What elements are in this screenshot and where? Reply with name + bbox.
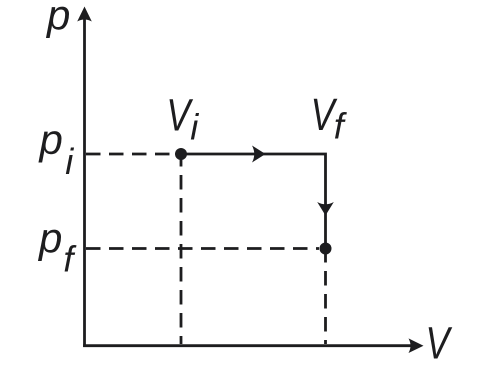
svg-text:f: f xyxy=(334,106,348,147)
mid-arrow on vertical segment (downward) xyxy=(317,202,334,216)
y-axis (p axis) xyxy=(83,18,86,347)
dashed guide at V_f (vertical) xyxy=(324,248,327,344)
state point f xyxy=(320,243,332,255)
x-axis arrowhead xyxy=(409,338,424,353)
svg-text:i: i xyxy=(190,106,199,147)
svg-text:V: V xyxy=(426,318,453,369)
dashed guide at V_i (vertical) xyxy=(180,152,183,344)
svg-text:p: p xyxy=(38,116,63,163)
svg-text:f: f xyxy=(63,239,77,280)
svg-text:i: i xyxy=(65,141,74,182)
mid-arrow on horizontal segment (rightward) xyxy=(252,146,266,163)
dashed guide at p_f level xyxy=(86,247,319,250)
svg-text:p: p xyxy=(45,0,70,39)
state point i xyxy=(175,148,187,160)
dashed guide at p_i level xyxy=(86,153,176,156)
process path: isobaric expansion then isochoric pressure drop xyxy=(181,154,326,249)
y-axis arrowhead xyxy=(77,7,92,22)
svg-text:p: p xyxy=(37,215,62,262)
x-axis (V axis) xyxy=(83,344,412,347)
